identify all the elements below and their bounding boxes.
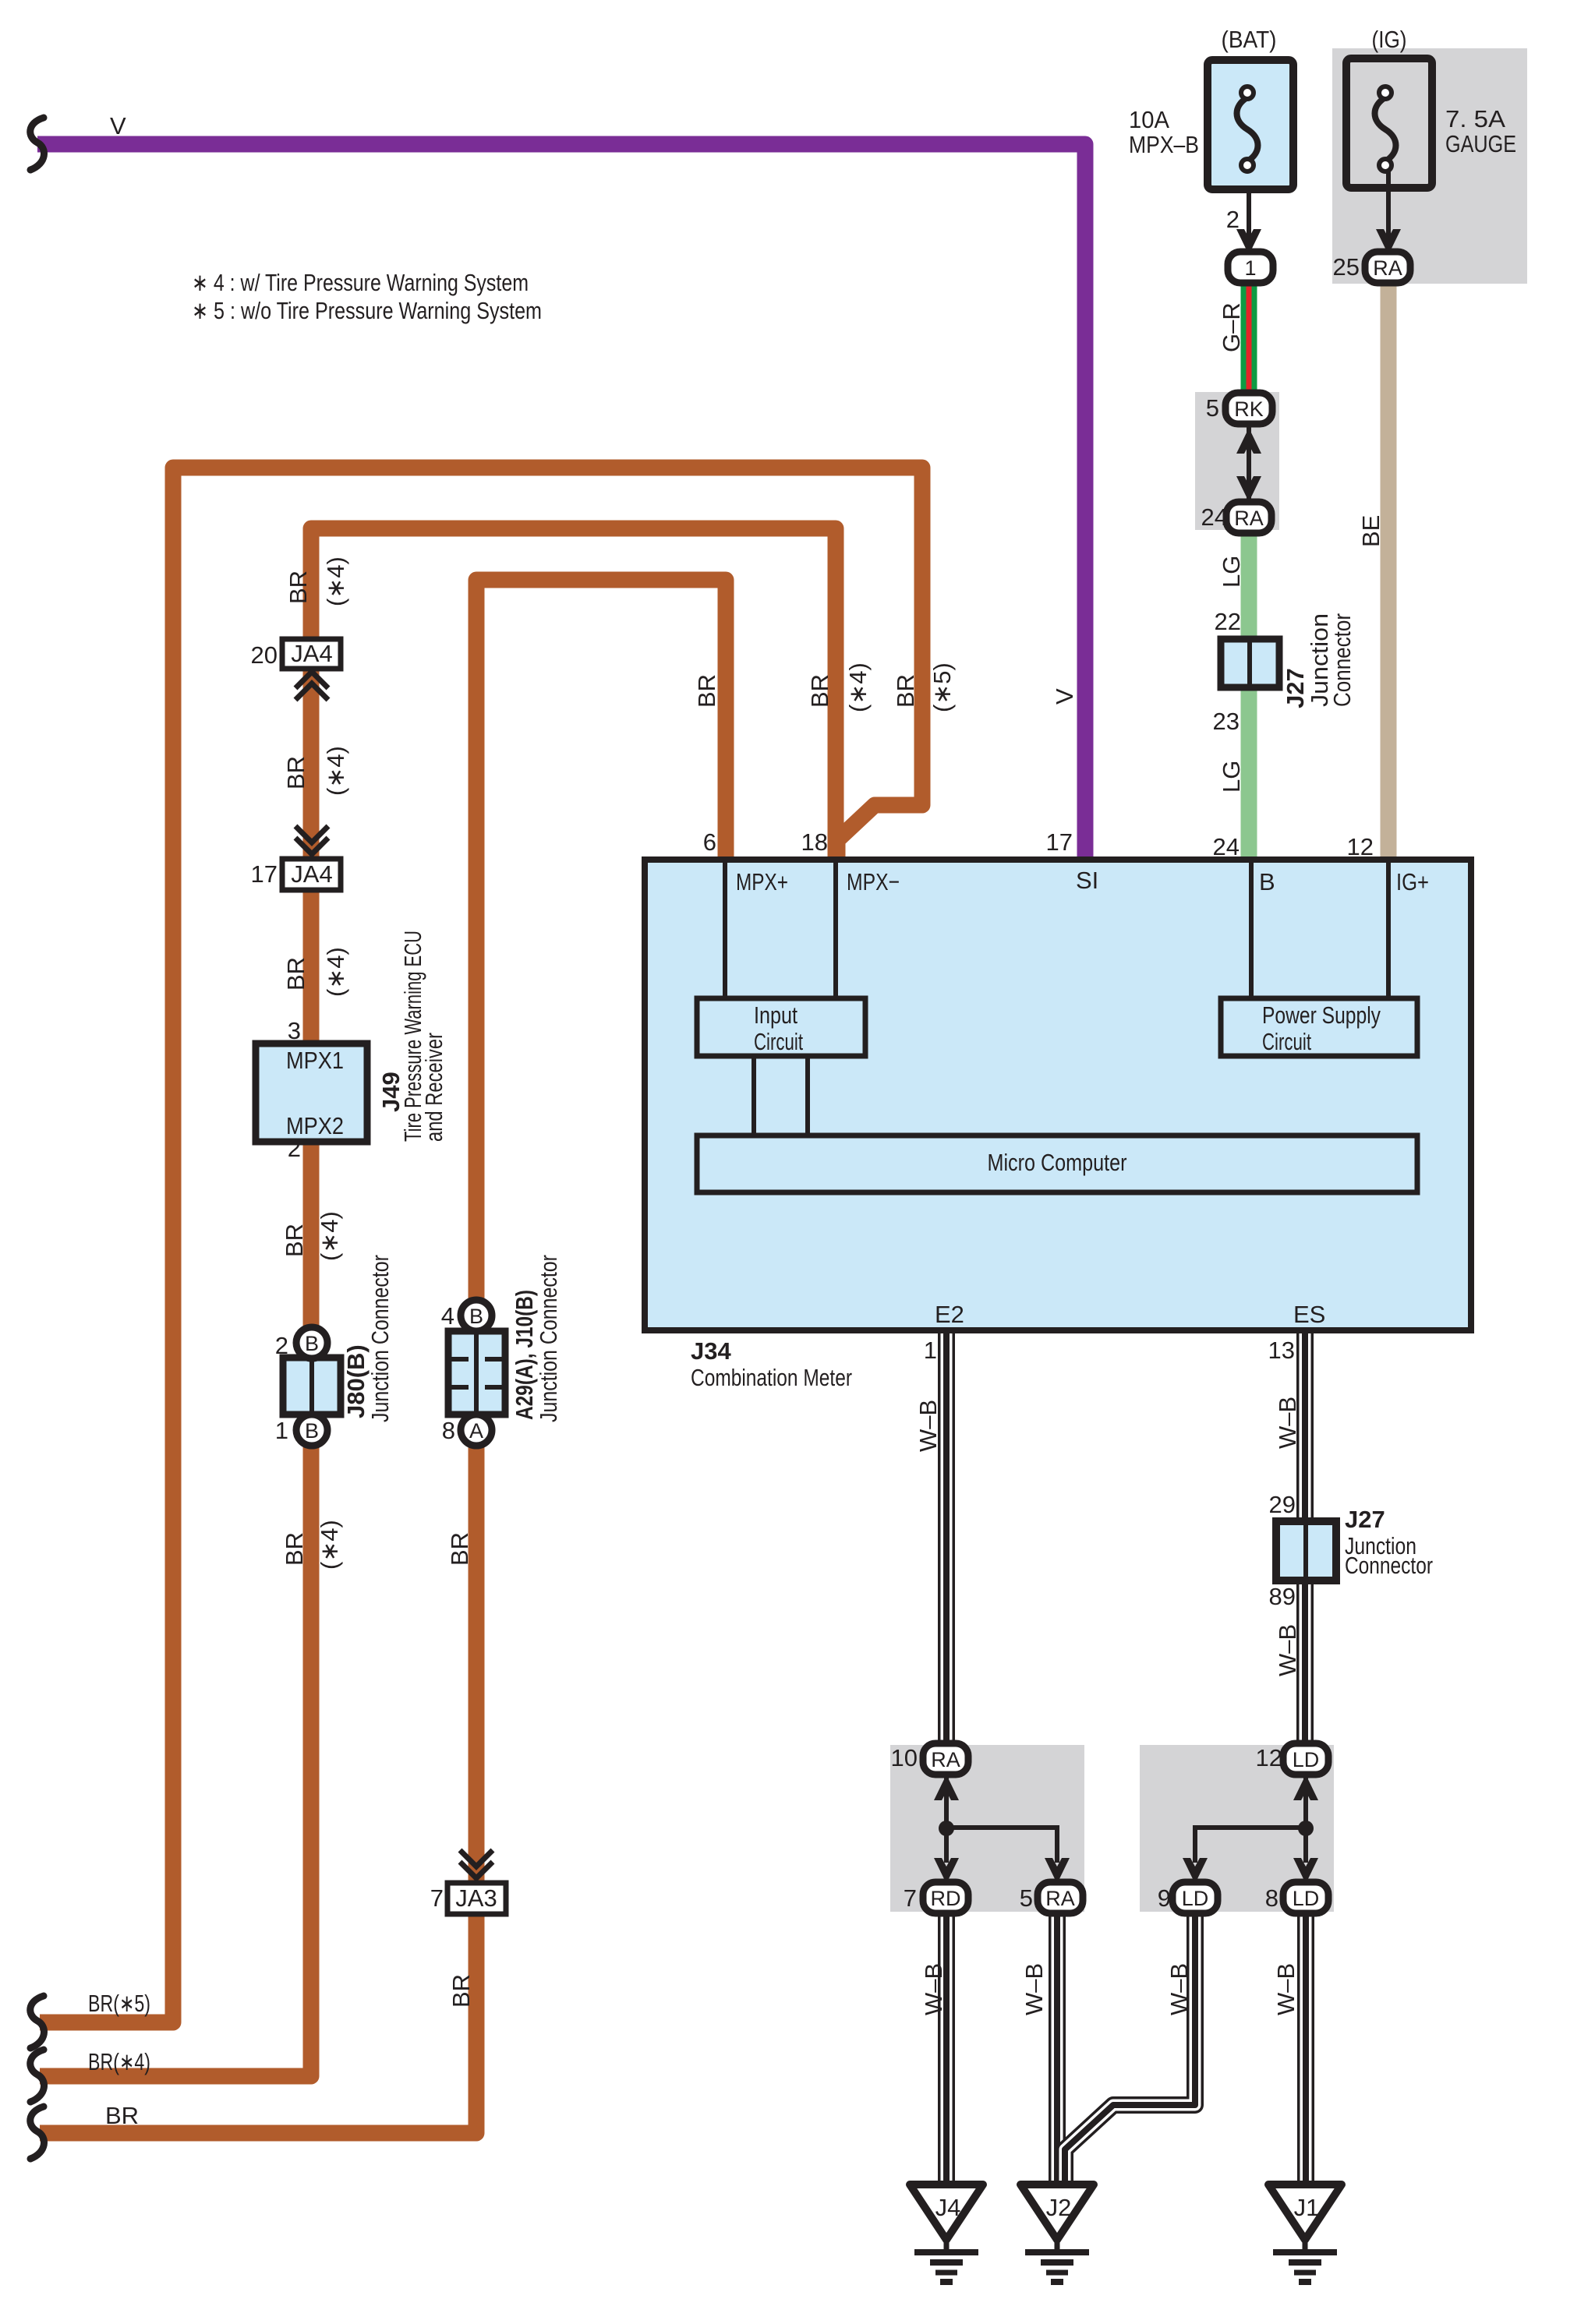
svg-text:1: 1 bbox=[924, 1337, 937, 1364]
svg-text:12: 12 bbox=[1347, 833, 1374, 860]
svg-text:SI: SI bbox=[1076, 867, 1098, 894]
svg-text:Power Supply: Power Supply bbox=[1262, 1001, 1381, 1029]
connector oval RD 7 bbox=[923, 1882, 968, 1913]
svg-text:RK: RK bbox=[1234, 397, 1264, 421]
chevron into RD 7 bbox=[934, 1858, 959, 1884]
wire W-B from ES pin 13 bbox=[1296, 1332, 1314, 1748]
connector circle B 1 bbox=[296, 1415, 327, 1446]
internal lead pin 24 to power supply circuit bbox=[1249, 863, 1254, 998]
connector circle A 8 bbox=[461, 1415, 492, 1446]
svg-text:BR: BR bbox=[105, 2102, 139, 2129]
connector oval LD 8 bbox=[1283, 1882, 1328, 1913]
svg-text:RA: RA bbox=[1373, 256, 1402, 280]
splice branch to RA 5 bbox=[946, 1828, 1057, 1863]
svg-text:J34: J34 bbox=[691, 1337, 731, 1365]
svg-text:3: 3 bbox=[288, 1017, 301, 1044]
connector oval 1 bbox=[1228, 252, 1273, 283]
svg-text:J27: J27 bbox=[1345, 1506, 1385, 1533]
svg-text:1: 1 bbox=[275, 1417, 288, 1444]
svg-text:(∗4): (∗4) bbox=[322, 947, 349, 997]
svg-text:(∗4): (∗4) bbox=[316, 1520, 343, 1570]
link RK 5 to RA 24 bbox=[1247, 421, 1251, 507]
fuse 10A MPX-B symbol bbox=[1237, 87, 1258, 171]
chevron below IG fuse bbox=[1376, 229, 1401, 255]
svg-text:B: B bbox=[1259, 868, 1275, 895]
svg-text:LD: LD bbox=[1293, 1748, 1320, 1771]
tire pressure warning ECU J49 box bbox=[256, 1044, 367, 1142]
connector oval RA 5 bbox=[1038, 1882, 1083, 1913]
lead from IG fuse to connector 25 bbox=[1386, 167, 1391, 249]
svg-text:JA4: JA4 bbox=[291, 860, 332, 888]
wire continuation squiggle BR(*4) bbox=[30, 2050, 44, 2102]
fuse 7.5A GAUGE symbol bbox=[1375, 87, 1396, 171]
chevron into LD 9 bbox=[1183, 1858, 1208, 1884]
svg-text:MPX–B: MPX–B bbox=[1129, 131, 1199, 158]
junction connector J27 upper box bbox=[1221, 639, 1279, 687]
wire BE: RA 25 to J34 pin 12 IG+ bbox=[1381, 273, 1397, 860]
svg-text:12: 12 bbox=[1256, 1744, 1282, 1771]
connector oval RK 5 bbox=[1225, 393, 1272, 424]
svg-text:(BAT): (BAT) bbox=[1222, 26, 1277, 53]
chevron into LD 12 bbox=[1293, 1775, 1318, 1800]
svg-text:(∗4): (∗4) bbox=[316, 1211, 343, 1261]
svg-text:17: 17 bbox=[251, 860, 278, 888]
chevron below BAT fuse bbox=[1236, 229, 1261, 255]
wire continuation squiggle V bbox=[30, 118, 44, 170]
splice branch to LD 9 bbox=[1195, 1828, 1306, 1863]
svg-text:29: 29 bbox=[1269, 1491, 1296, 1518]
connector shade block (IG fuse area) bbox=[1332, 48, 1527, 284]
ground J1 bbox=[1268, 2184, 1342, 2282]
svg-text:B: B bbox=[305, 1419, 319, 1443]
connector oval 25 RA bbox=[1365, 252, 1410, 283]
svg-text:7. 5A: 7. 5A bbox=[1445, 105, 1505, 132]
micro computer box bbox=[697, 1136, 1417, 1192]
internal lead pin 6 to input circuit bbox=[723, 863, 727, 998]
connector oval RA 10 bbox=[923, 1743, 968, 1775]
svg-text:BR: BR bbox=[281, 1532, 308, 1566]
connector circle B 4 bbox=[461, 1300, 492, 1331]
svg-text:J2: J2 bbox=[1046, 2194, 1072, 2221]
svg-text:10A: 10A bbox=[1129, 106, 1169, 133]
lead from BAT fuse to connector 1 bbox=[1247, 167, 1251, 249]
connector shade block (ES ground splice) bbox=[1140, 1745, 1334, 1912]
svg-text:1: 1 bbox=[1244, 256, 1256, 280]
svg-text:W–B: W–B bbox=[1020, 1963, 1048, 2015]
junction connector A29(A),J10(B) box bbox=[448, 1331, 505, 1415]
wire continuation squiggle BR bbox=[30, 2107, 44, 2159]
double chevron down into JA4 17 bbox=[295, 826, 328, 854]
svg-text:9: 9 bbox=[1158, 1884, 1171, 1912]
in-line connector JA4 17 box bbox=[282, 859, 341, 890]
svg-text:22: 22 bbox=[1215, 608, 1241, 635]
svg-text:25: 25 bbox=[1333, 253, 1360, 281]
svg-text:BR: BR bbox=[282, 756, 309, 789]
splice junction dot (E2) bbox=[939, 1821, 954, 1836]
svg-text:8: 8 bbox=[1265, 1884, 1278, 1912]
svg-text:J80(B): J80(B) bbox=[342, 1344, 370, 1418]
svg-text:J1: J1 bbox=[1294, 2194, 1320, 2221]
svg-text:A29(A), J10(B): A29(A), J10(B) bbox=[511, 1290, 538, 1420]
svg-text:V: V bbox=[1051, 688, 1078, 705]
wire continuation squiggle BR(*5) bbox=[30, 1996, 44, 2048]
wire G-R: fuse oval 1 to RK bbox=[1241, 279, 1257, 396]
internal lead pin 12 to power supply circuit bbox=[1386, 863, 1391, 998]
svg-text:2: 2 bbox=[275, 1332, 288, 1359]
svg-text:Input: Input bbox=[754, 1001, 797, 1029]
connector oval RA 24 bbox=[1226, 502, 1271, 533]
svg-text:LD: LD bbox=[1293, 1887, 1320, 1910]
svg-text:W–B: W–B bbox=[914, 1400, 942, 1452]
svg-text:4: 4 bbox=[441, 1302, 454, 1330]
svg-text:7: 7 bbox=[904, 1884, 917, 1912]
internal lead input circuit to micro computer (right) bbox=[805, 1056, 810, 1136]
svg-text:24: 24 bbox=[1201, 503, 1228, 531]
svg-text:BR: BR bbox=[446, 1532, 473, 1566]
internal lead input circuit to micro computer (left) bbox=[752, 1056, 756, 1136]
svg-text:BR: BR bbox=[447, 1974, 475, 2008]
svg-text:W–B: W–B bbox=[1272, 1963, 1300, 2015]
svg-text:5: 5 bbox=[1020, 1884, 1033, 1912]
junction connector J80(B) box bbox=[283, 1358, 341, 1415]
svg-text:LD: LD bbox=[1182, 1887, 1209, 1910]
svg-text:Micro Computer: Micro Computer bbox=[988, 1149, 1127, 1176]
ground J2 bbox=[1020, 2184, 1094, 2282]
combination meter J34 box bbox=[645, 860, 1471, 1330]
svg-text:Connector: Connector bbox=[1345, 1552, 1433, 1579]
junction connector J80(B) divider bbox=[309, 1361, 314, 1411]
svg-text:LG: LG bbox=[1218, 556, 1245, 588]
svg-text:JA3: JA3 bbox=[455, 1884, 497, 1912]
svg-text:B: B bbox=[469, 1305, 483, 1328]
svg-text:BR: BR bbox=[281, 1224, 308, 1257]
fuse 10A MPX-B box bbox=[1208, 60, 1293, 189]
svg-text:MPX+: MPX+ bbox=[736, 868, 788, 895]
svg-text:V: V bbox=[110, 112, 126, 140]
wire W-B from RA 5 to ground J2 bbox=[1049, 1909, 1066, 2188]
svg-text:BR: BR bbox=[693, 674, 720, 708]
wire W-B from LD 9 joining ground J2 bbox=[1065, 1909, 1195, 2188]
chevron into LD 8 bbox=[1293, 1858, 1318, 1884]
svg-text:W–B: W–B bbox=[1274, 1624, 1301, 1676]
wire LG: RA 24 to J34 pin 24 B bbox=[1241, 516, 1257, 860]
svg-text:B: B bbox=[305, 1332, 319, 1355]
junction connector J27 lower divider bbox=[1303, 1525, 1308, 1577]
svg-text:Junction Connector: Junction Connector bbox=[366, 1255, 394, 1422]
svg-text:BR: BR bbox=[806, 674, 833, 708]
chevron into RA 24 bbox=[1236, 476, 1261, 502]
junction connector A29 divider vertical bbox=[474, 1334, 479, 1411]
svg-text:Circuit: Circuit bbox=[754, 1028, 803, 1055]
svg-text:8: 8 bbox=[442, 1417, 455, 1444]
splice junction dot (ES) bbox=[1298, 1821, 1314, 1836]
junction connector A29 dashes row 1 bbox=[451, 1357, 502, 1362]
svg-text:Junction Connector: Junction Connector bbox=[535, 1255, 562, 1422]
svg-text:89: 89 bbox=[1269, 1583, 1296, 1610]
junction connector A29 dashes row 2 bbox=[451, 1385, 502, 1390]
svg-text:(∗4): (∗4) bbox=[844, 662, 872, 712]
svg-text:BR(∗5): BR(∗5) bbox=[88, 1990, 150, 2017]
svg-text:(∗4): (∗4) bbox=[322, 556, 349, 606]
connector shade block (RK/RA splice) bbox=[1195, 392, 1279, 530]
wire W-B from RD 7 to ground J4 bbox=[938, 1909, 955, 2188]
svg-text:17: 17 bbox=[1046, 828, 1073, 856]
svg-text:5: 5 bbox=[1206, 394, 1219, 422]
svg-text:∗ 4 : w/ Tire Pressure Warning: ∗ 4 : w/ Tire Pressure Warning System bbox=[192, 269, 529, 296]
wire W-B from LD 8 to ground J1 bbox=[1297, 1909, 1314, 2188]
svg-text:IG+: IG+ bbox=[1396, 868, 1429, 895]
internal lead pin 18 to input circuit bbox=[833, 863, 838, 998]
svg-text:∗ 5 : w/o Tire Pressure Warnin: ∗ 5 : w/o Tire Pressure Warning System bbox=[192, 297, 542, 324]
svg-text:RA: RA bbox=[1045, 1887, 1075, 1910]
svg-text:GAUGE: GAUGE bbox=[1445, 130, 1516, 157]
svg-text:RA: RA bbox=[1234, 507, 1264, 530]
svg-text:23: 23 bbox=[1213, 708, 1240, 735]
svg-text:MPX1: MPX1 bbox=[286, 1047, 344, 1074]
input circuit box bbox=[697, 998, 865, 1056]
svg-text:RA: RA bbox=[931, 1748, 960, 1771]
chevron into RK 5 bbox=[1236, 428, 1261, 454]
svg-text:MPX−: MPX− bbox=[847, 868, 900, 895]
chevron into RA 10 bbox=[934, 1775, 959, 1800]
svg-text:(IG): (IG) bbox=[1372, 26, 1407, 53]
svg-text:ES: ES bbox=[1293, 1301, 1325, 1328]
svg-text:RD: RD bbox=[931, 1887, 961, 1910]
svg-text:E2: E2 bbox=[935, 1301, 964, 1328]
svg-text:G–R: G–R bbox=[1218, 302, 1245, 352]
svg-text:BR: BR bbox=[285, 570, 312, 604]
svg-text:BR: BR bbox=[892, 674, 919, 708]
svg-text:BR: BR bbox=[282, 957, 309, 991]
wire BR: left edge through JA3,A29 to MPX+ pin 6 bbox=[40, 580, 726, 2133]
connector circle B 2 bbox=[296, 1327, 327, 1358]
svg-text:2: 2 bbox=[1226, 206, 1240, 233]
svg-text:A: A bbox=[469, 1419, 483, 1443]
svg-text:Combination Meter: Combination Meter bbox=[691, 1364, 852, 1391]
wire BR(*4): left edge through J80,J49,JA4 to MPX- pin 18 bbox=[40, 528, 836, 2076]
svg-text:W–B: W–B bbox=[1165, 1963, 1193, 2015]
in-line connector JA3 7 box bbox=[447, 1883, 506, 1914]
svg-text:and Receiver: and Receiver bbox=[420, 1033, 447, 1142]
ground J4 bbox=[910, 2184, 983, 2282]
connector shade block (E2 ground splice) bbox=[890, 1745, 1084, 1912]
connector oval LD 9 bbox=[1172, 1882, 1218, 1913]
svg-text:18: 18 bbox=[801, 828, 828, 856]
chevron into RA 5 bbox=[1045, 1858, 1070, 1884]
double chevron up into JA4 20 bbox=[295, 672, 328, 700]
in-line connector JA4 20 box bbox=[282, 639, 341, 669]
wire BR(*5): left edge to MPX- pin 18 bbox=[40, 468, 922, 2022]
svg-text:JA4: JA4 bbox=[291, 640, 332, 667]
svg-text:BE: BE bbox=[1357, 515, 1385, 547]
svg-text:J27: J27 bbox=[1282, 668, 1309, 708]
wire W-B from E2 pin 1 bbox=[938, 1332, 955, 1748]
svg-text:BR(∗4): BR(∗4) bbox=[88, 2048, 150, 2075]
wire V purple: left edge to SI pin 17 bbox=[37, 144, 1085, 860]
splice link RA 10 to RD 7 bbox=[944, 1771, 949, 1863]
svg-text:7: 7 bbox=[430, 1884, 444, 1912]
splice link LD 12 to LD 8 bbox=[1303, 1771, 1308, 1863]
svg-text:24: 24 bbox=[1213, 833, 1240, 860]
connector oval LD 12 bbox=[1283, 1743, 1328, 1775]
double chevron down into JA3 7 bbox=[460, 1850, 493, 1878]
svg-text:W–B: W–B bbox=[1274, 1397, 1301, 1449]
svg-text:2: 2 bbox=[288, 1135, 301, 1162]
junction connector J27 upper divider bbox=[1247, 642, 1252, 684]
svg-text:6: 6 bbox=[703, 828, 716, 856]
svg-text:Circuit: Circuit bbox=[1262, 1028, 1311, 1055]
svg-text:10: 10 bbox=[891, 1744, 918, 1771]
svg-text:(∗4): (∗4) bbox=[322, 746, 349, 796]
fuse 7.5A GAUGE box bbox=[1346, 58, 1432, 188]
svg-text:13: 13 bbox=[1268, 1337, 1295, 1364]
svg-text:(∗5): (∗5) bbox=[928, 662, 956, 712]
svg-text:Connector: Connector bbox=[1328, 613, 1356, 707]
svg-text:LG: LG bbox=[1218, 761, 1245, 793]
junction connector J27 lower box bbox=[1276, 1521, 1336, 1581]
svg-text:W–B: W–B bbox=[920, 1963, 947, 2015]
svg-text:J4: J4 bbox=[935, 2194, 961, 2221]
power supply circuit box bbox=[1221, 998, 1417, 1056]
svg-text:20: 20 bbox=[251, 641, 278, 669]
